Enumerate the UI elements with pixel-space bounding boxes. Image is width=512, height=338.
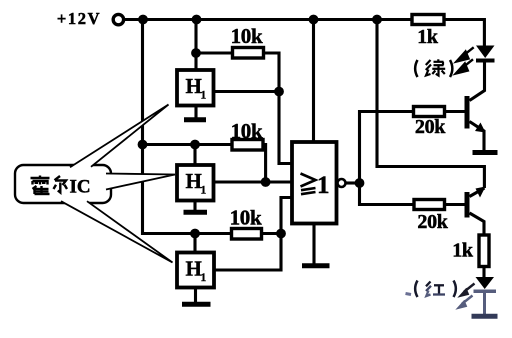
svg-text:20k: 20k xyxy=(415,116,446,138)
svg-text:10k: 10k xyxy=(231,24,263,48)
svg-text:H: H xyxy=(186,169,202,193)
svg-text:1: 1 xyxy=(201,272,207,284)
svg-text:H: H xyxy=(186,74,202,98)
svg-text:1k: 1k xyxy=(452,240,474,262)
svg-text:IC: IC xyxy=(70,177,91,198)
svg-text:1: 1 xyxy=(201,90,207,102)
svg-text:10k: 10k xyxy=(230,206,262,230)
svg-text:H: H xyxy=(186,257,202,281)
svg-text:1: 1 xyxy=(201,185,207,197)
svg-text:10k: 10k xyxy=(231,119,263,143)
svg-text:+12V: +12V xyxy=(57,9,101,28)
svg-text:20k: 20k xyxy=(417,211,448,233)
svg-text:1: 1 xyxy=(317,172,330,199)
svg-text:1k: 1k xyxy=(417,26,439,48)
